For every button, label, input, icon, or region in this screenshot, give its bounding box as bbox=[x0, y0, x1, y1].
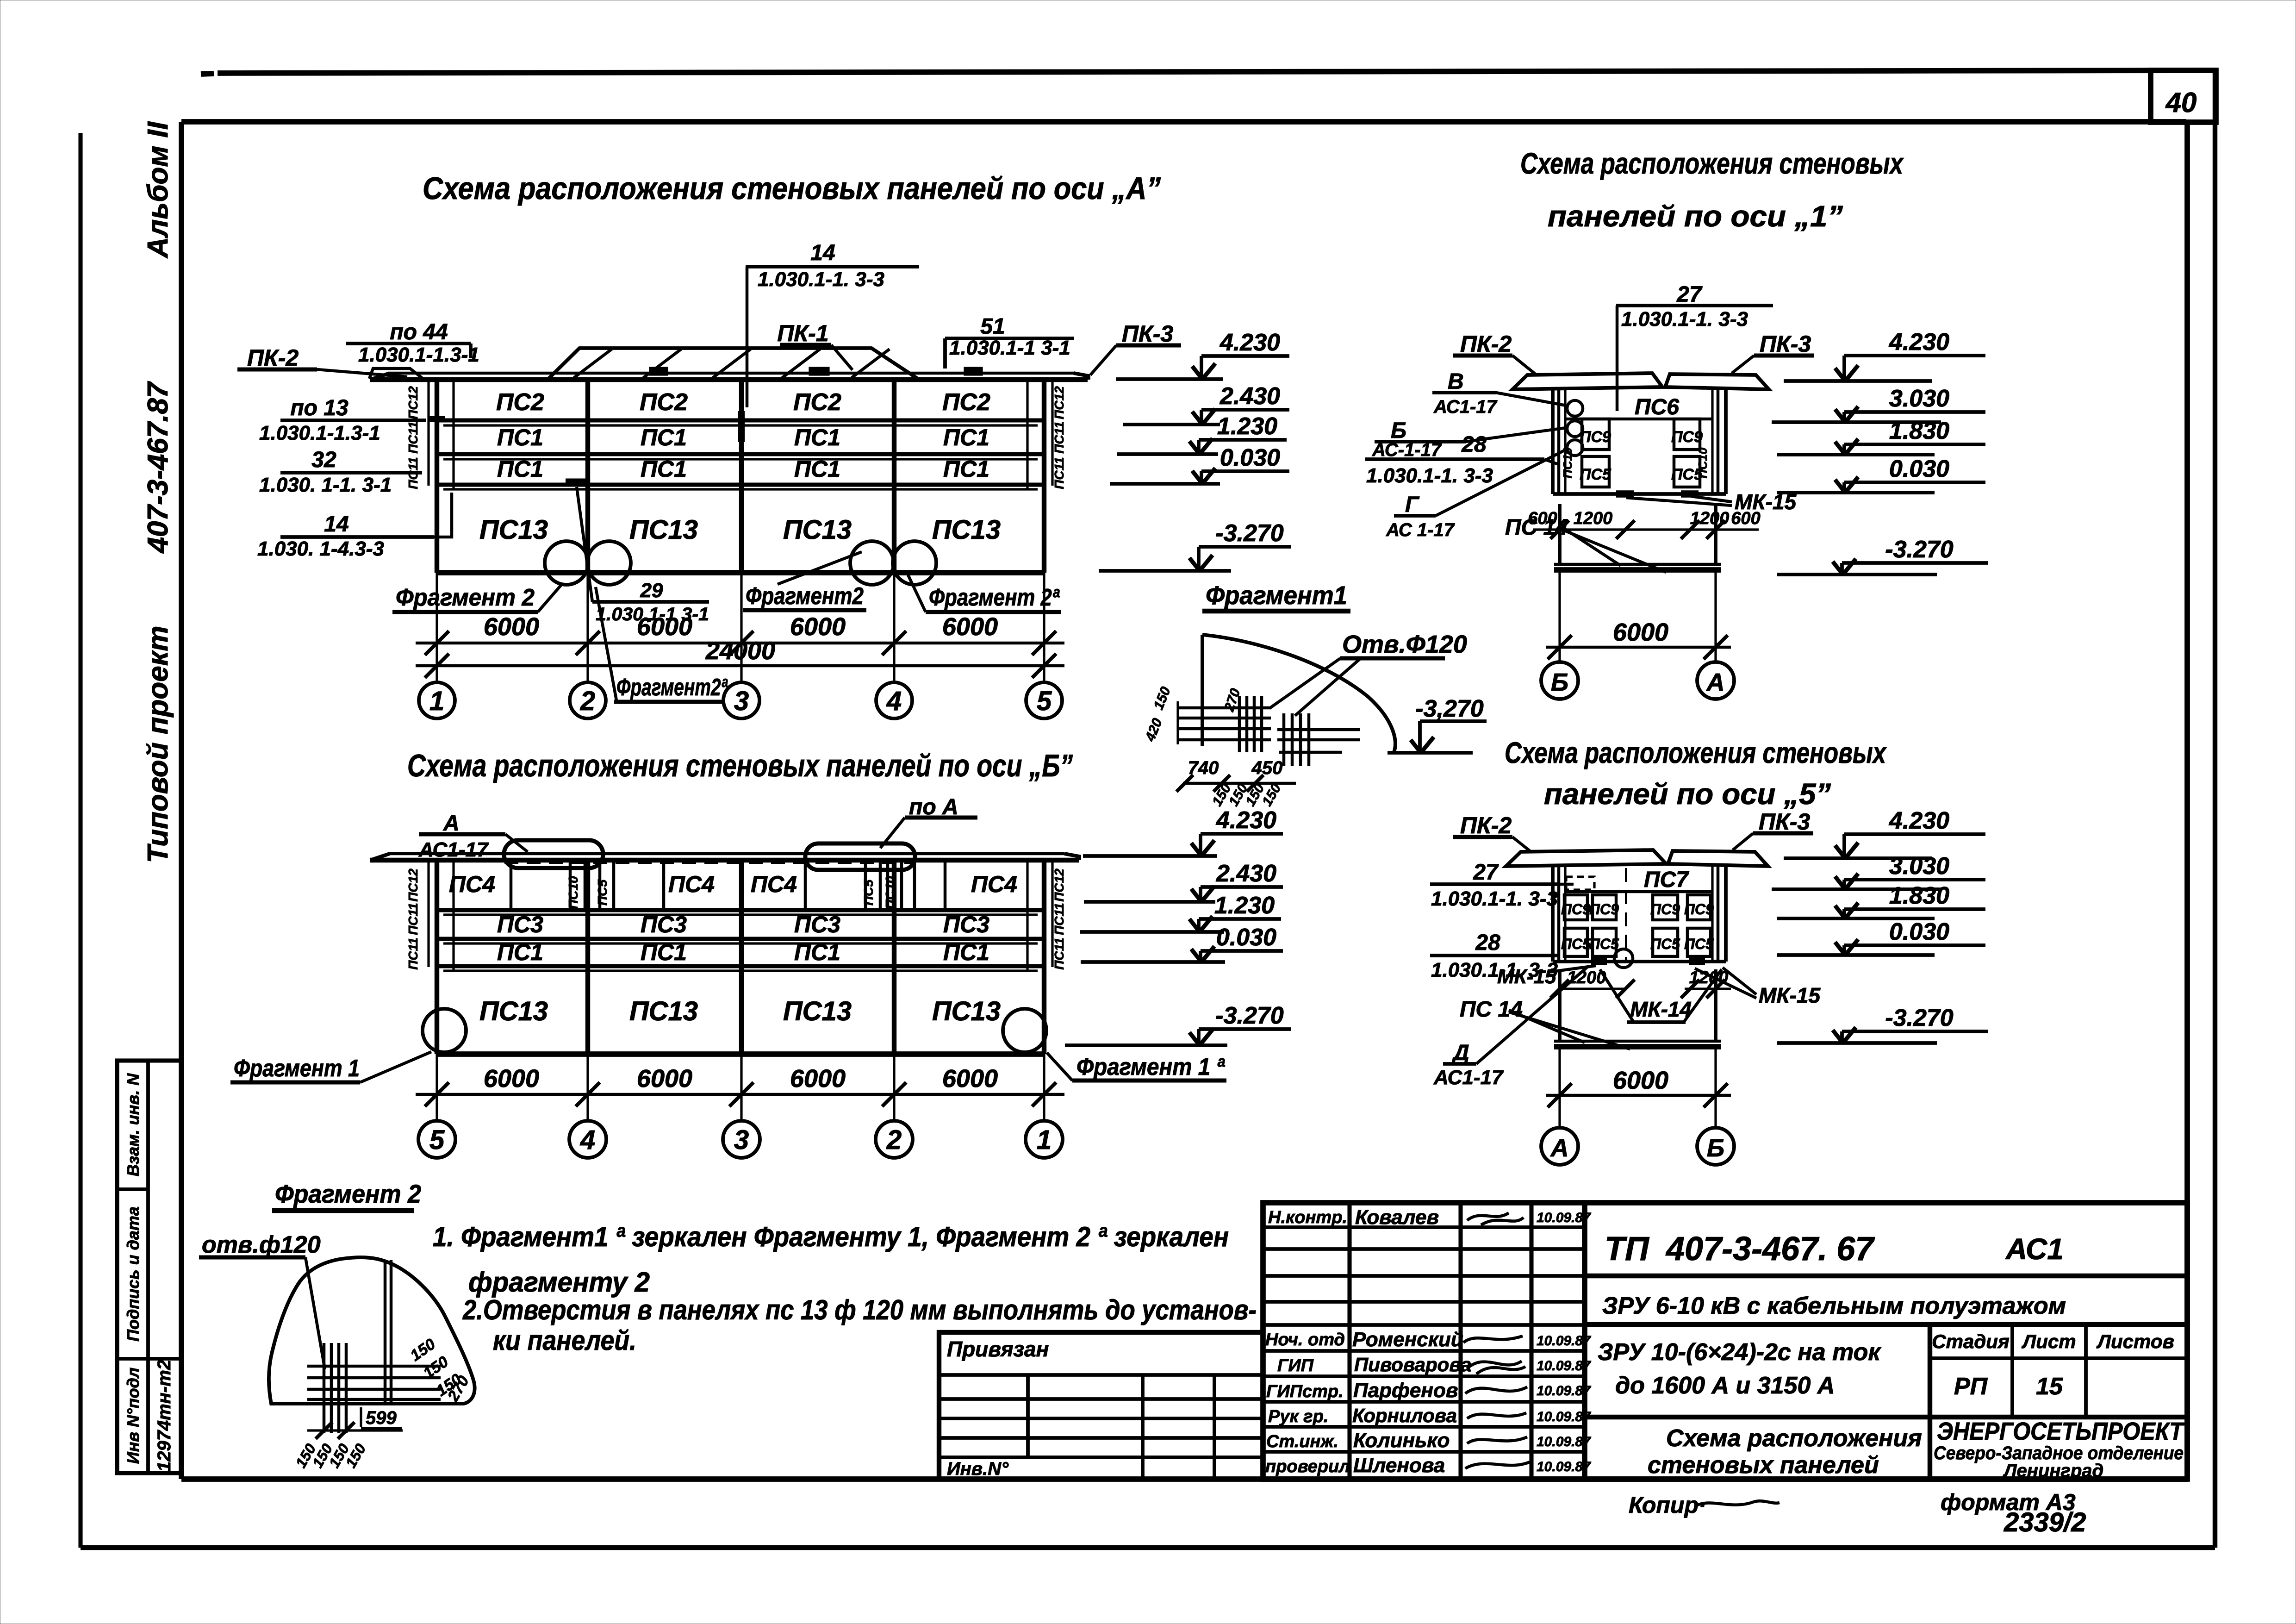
svg-text:0.030: 0.030 bbox=[1889, 918, 1949, 945]
skylight hatch diagonals bbox=[574, 349, 612, 378]
svg-text:АС-1-17: АС-1-17 bbox=[1372, 440, 1442, 460]
svg-text:3: 3 bbox=[734, 686, 749, 716]
svg-text:ПС1: ПС1 bbox=[794, 456, 840, 482]
svg-text:1.830: 1.830 bbox=[1889, 418, 1949, 444]
svg-text:6000: 6000 bbox=[1613, 618, 1668, 646]
svg-text:ГИП: ГИП bbox=[1277, 1356, 1314, 1375]
svg-text:6000: 6000 bbox=[790, 1065, 846, 1093]
roof slab lens right (PK-3) axis1 bbox=[1665, 374, 1769, 389]
axis verticals inside block bbox=[585, 380, 590, 573]
fragment 2 dim line bottom bbox=[307, 1429, 403, 1431]
privyazan table box bbox=[939, 1332, 1263, 1479]
svg-text:по 13: по 13 bbox=[290, 396, 348, 420]
svg-text:599: 599 bbox=[366, 1408, 397, 1428]
svg-text:Фрагмент 1: Фрагмент 1 bbox=[234, 1055, 360, 1082]
row line PS1 bottom bbox=[437, 482, 1044, 487]
svg-text:ЗРУ 10-(6×24)-2с на ток: ЗРУ 10-(6×24)-2с на ток bbox=[1598, 1339, 1881, 1366]
basement floor axis5 bbox=[1554, 1040, 1721, 1043]
svg-text:МК-15: МК-15 bbox=[1497, 965, 1556, 988]
sheet outer border right bbox=[2213, 70, 2217, 1548]
svg-text:ПС9: ПС9 bbox=[1684, 901, 1714, 918]
svg-text:Фрагмент2: Фрагмент2 bbox=[746, 583, 864, 610]
roof slab lens left (PK-2) axis1 bbox=[1512, 373, 1662, 389]
section marker circles B G V axis1 bbox=[1567, 400, 1583, 416]
svg-text:4.230: 4.230 bbox=[1216, 807, 1276, 834]
svg-text:Фрагмент 1 ª: Фрагмент 1 ª bbox=[1076, 1054, 1226, 1081]
svg-text:27: 27 bbox=[1676, 282, 1703, 307]
svg-text:10.09.87: 10.09.87 bbox=[1537, 1459, 1591, 1474]
svg-text:ПС1: ПС1 bbox=[641, 456, 687, 482]
fragment detail circles at axis 4 bbox=[850, 541, 894, 585]
svg-text:ПС13: ПС13 bbox=[932, 515, 1001, 545]
svg-text:ПК-2: ПК-2 bbox=[1460, 812, 1512, 838]
svg-text:2339/2: 2339/2 bbox=[2004, 1507, 2086, 1537]
svg-text:Колинько: Колинько bbox=[1353, 1429, 1450, 1452]
svg-text:407-3-467.87: 407-3-467.87 bbox=[142, 381, 174, 554]
svg-text:1.030.1-1.3-1: 1.030.1-1.3-1 bbox=[259, 422, 380, 444]
svg-text:1. Фрагмент1 ª зеркален Фрагм: 1. Фрагмент1 ª зеркален Фрагменту 1, Фра… bbox=[433, 1221, 1229, 1252]
svg-text:ПС1: ПС1 bbox=[794, 939, 840, 965]
svg-text:6000: 6000 bbox=[942, 1065, 998, 1093]
skylight panel PK-1 trapezoid bbox=[548, 348, 918, 379]
svg-text:1: 1 bbox=[1037, 1125, 1052, 1155]
drawing frame right bbox=[2184, 122, 2190, 1479]
svg-text:ПС1: ПС1 bbox=[794, 425, 840, 450]
svg-text:ПС11: ПС11 bbox=[1052, 903, 1066, 935]
svg-text:ПС5: ПС5 bbox=[1650, 936, 1680, 952]
svg-text:ки панелей.: ки панелей. bbox=[493, 1325, 636, 1356]
svg-text:Б: Б bbox=[1551, 668, 1568, 696]
axis circles A B axis5 bbox=[1541, 1128, 1578, 1165]
svg-text:А: А bbox=[1550, 1134, 1569, 1162]
svg-text:АС1-17: АС1-17 bbox=[1433, 1066, 1504, 1089]
svg-text:Д: Д bbox=[1451, 1041, 1469, 1065]
axis verticals elevation B bbox=[585, 860, 590, 1054]
svg-text:Фрагмент1: Фрагмент1 bbox=[1206, 581, 1347, 610]
center dashed line axis5 bbox=[1625, 868, 1627, 963]
svg-text:6000: 6000 bbox=[1613, 1067, 1668, 1094]
fragment circle right elevation B bbox=[1003, 1009, 1046, 1052]
walls axis1 bbox=[1551, 390, 1555, 494]
svg-text:Ковалев: Ковалев bbox=[1355, 1206, 1439, 1229]
dimension line 24000 bbox=[416, 664, 1064, 668]
svg-text:фрагменту 2: фрагменту 2 bbox=[468, 1267, 650, 1298]
svg-text:ПС10: ПС10 bbox=[1696, 447, 1710, 478]
svg-text:Фрагмент 2ª: Фрагмент 2ª bbox=[929, 584, 1060, 611]
svg-text:ПС13: ПС13 bbox=[479, 515, 548, 545]
svg-text:ПС6: ПС6 bbox=[1635, 395, 1679, 419]
svg-text:ПС11: ПС11 bbox=[1052, 457, 1066, 489]
svg-text:В: В bbox=[1448, 369, 1464, 394]
svg-text:ЗРУ 6-10 кВ с кабельным полу: ЗРУ 6-10 кВ с кабельным полуэтажом bbox=[1602, 1293, 2066, 1319]
svg-text:МК-14: МК-14 bbox=[1630, 997, 1692, 1021]
svg-text:стеновых панелей: стеновых панелей bbox=[1648, 1452, 1879, 1479]
drawing frame bottom bbox=[181, 1476, 2187, 1482]
svg-text:0.030: 0.030 bbox=[1216, 924, 1276, 951]
svg-text:Схема расположения стеновых па: Схема расположения стеновых панелей по о… bbox=[423, 171, 1161, 206]
PS4 row subdivision verticals bbox=[510, 861, 513, 910]
svg-text:Стадия: Стадия bbox=[1932, 1330, 2009, 1352]
svg-text:1.830: 1.830 bbox=[1889, 882, 1949, 909]
svg-text:28: 28 bbox=[1461, 432, 1487, 457]
svg-text:600: 600 bbox=[1731, 509, 1760, 528]
svg-text:ПС11: ПС11 bbox=[406, 937, 420, 969]
svg-text:ПС13: ПС13 bbox=[629, 515, 698, 545]
svg-text:Фрагмент2ª: Фрагмент2ª bbox=[616, 674, 728, 701]
roof slab lens left axis5 bbox=[1506, 850, 1666, 866]
roof left tongue PK-2 bbox=[369, 369, 423, 379]
svg-text:-3.270: -3.270 bbox=[1215, 1002, 1284, 1029]
row line PS1/PS1 bbox=[437, 452, 1044, 456]
svg-text:28: 28 bbox=[1475, 931, 1500, 955]
svg-text:2: 2 bbox=[580, 686, 595, 716]
title block outer bbox=[1263, 1203, 2187, 1479]
roof dashed line under slab bbox=[504, 862, 914, 864]
page number box 40 bbox=[2151, 70, 2216, 122]
svg-text:ПС4: ПС4 bbox=[971, 871, 1017, 897]
fragment 1 rebar cluster left horizontals bbox=[1179, 706, 1271, 710]
axis lines down axis5 bbox=[1558, 1047, 1561, 1128]
svg-text:-3.270: -3.270 bbox=[1885, 536, 1954, 563]
row line PS4 bottom bbox=[437, 908, 1044, 912]
svg-text:Схема расположения: Схема расположения bbox=[1666, 1425, 1922, 1452]
svg-text:Подпись и дата: Подпись и дата bbox=[124, 1206, 143, 1342]
svg-text:14: 14 bbox=[324, 512, 348, 537]
svg-text:6000: 6000 bbox=[484, 1065, 539, 1093]
svg-text:10.09.87: 10.09.87 bbox=[1537, 1383, 1591, 1399]
svg-text:ПС9: ПС9 bbox=[1650, 901, 1680, 918]
dimension line 6000 elevation B bbox=[416, 1093, 1064, 1096]
svg-text:панелей по оси „5”: панелей по оси „5” bbox=[1544, 777, 1831, 811]
dimension extension lines elevation A bbox=[436, 573, 438, 682]
dimension line 6000 row bbox=[416, 642, 1064, 645]
walls axis5 bbox=[1551, 867, 1555, 962]
svg-text:3: 3 bbox=[734, 1125, 749, 1155]
svg-text:3.030: 3.030 bbox=[1889, 853, 1949, 880]
base plates axis5 bbox=[1591, 958, 1607, 965]
svg-text:15: 15 bbox=[2036, 1373, 2063, 1400]
svg-text:ПС4: ПС4 bbox=[668, 871, 715, 897]
svg-text:ПС13: ПС13 bbox=[629, 996, 698, 1026]
svg-text:51: 51 bbox=[980, 314, 1005, 339]
svg-text:А: А bbox=[1706, 668, 1725, 696]
svg-text:ПК-2: ПК-2 bbox=[247, 345, 299, 371]
svg-text:4: 4 bbox=[886, 686, 902, 716]
svg-text:1.030.1-1. 3-3: 1.030.1-1. 3-3 bbox=[758, 268, 884, 291]
svg-text:Рук гр.: Рук гр. bbox=[1268, 1407, 1328, 1426]
block bottom PS13 elevation B bbox=[437, 1051, 1044, 1057]
svg-text:Инв N°подл: Инв N°подл bbox=[124, 1368, 143, 1464]
basement walls axis5 bbox=[1558, 969, 1562, 1041]
svg-text:ПС11: ПС11 bbox=[1052, 937, 1066, 969]
fragment 1 rebar cluster right verticals bbox=[1282, 713, 1286, 766]
svg-text:ПС9: ПС9 bbox=[1589, 901, 1619, 918]
svg-text:Взам. инв. N: Взам. инв. N bbox=[124, 1073, 143, 1177]
svg-text:Н.контр.: Н.контр. bbox=[1268, 1208, 1347, 1227]
svg-text:ПС9: ПС9 bbox=[1671, 428, 1703, 446]
fragment 2 rebar verticals bbox=[323, 1343, 326, 1433]
base joint circle axis5 bbox=[1614, 949, 1633, 968]
roof anchor mark 2 bbox=[965, 368, 982, 375]
svg-text:10.09.87: 10.09.87 bbox=[1537, 1358, 1591, 1374]
svg-text:Роменский: Роменский bbox=[1352, 1328, 1463, 1351]
svg-text:ПС13: ПС13 bbox=[783, 515, 852, 545]
svg-text:ПС10: ПС10 bbox=[566, 876, 580, 909]
svg-text:ПС 14: ПС 14 bbox=[1460, 997, 1523, 1022]
svg-text:4.230: 4.230 bbox=[1889, 329, 1949, 356]
drawing frame left bbox=[179, 122, 184, 1479]
PS6 row line axis1 bbox=[1565, 418, 1712, 421]
svg-text:6000: 6000 bbox=[942, 613, 998, 641]
row line PS2/PS1 bbox=[437, 418, 1044, 422]
svg-text:ГИПстр.: ГИПстр. bbox=[1266, 1382, 1344, 1401]
svg-text:ПС12: ПС12 bbox=[1052, 868, 1066, 902]
svg-text:ПС2: ПС2 bbox=[496, 389, 544, 416]
svg-text:АС1: АС1 bbox=[2005, 1232, 2064, 1266]
svg-text:1200: 1200 bbox=[1574, 509, 1613, 528]
svg-text:ПС5: ПС5 bbox=[595, 880, 610, 906]
svg-text:1: 1 bbox=[429, 686, 444, 716]
axis circles elevation B bbox=[418, 1121, 455, 1158]
fragment 1 rebar cluster right horizontals bbox=[1277, 728, 1360, 731]
svg-text:4.230: 4.230 bbox=[1889, 807, 1949, 834]
svg-text:Фрагмент 2: Фрагмент 2 bbox=[396, 584, 535, 611]
svg-text:ПС9: ПС9 bbox=[1561, 901, 1591, 918]
svg-text:-3.270: -3.270 bbox=[1215, 520, 1284, 547]
joint tick left edge bbox=[428, 416, 445, 422]
svg-text:Привязан: Привязан bbox=[947, 1337, 1049, 1361]
svg-text:ПС13: ПС13 bbox=[783, 996, 852, 1026]
svg-text:ПК-1: ПК-1 bbox=[777, 320, 828, 346]
fragment 1 panel outline bbox=[1201, 635, 1204, 746]
stamp box column bbox=[117, 1061, 181, 1473]
svg-text:600: 600 bbox=[1528, 509, 1557, 528]
svg-text:14: 14 bbox=[810, 241, 835, 265]
svg-text:ПС12: ПС12 bbox=[406, 386, 420, 419]
wall panel block elevation B bbox=[427, 861, 429, 967]
svg-text:до 1600 А и 3150 А: до 1600 А и 3150 А bbox=[1615, 1372, 1835, 1399]
svg-text:Отв.Ф120: Отв.Ф120 bbox=[1342, 631, 1467, 658]
svg-text:ПС2: ПС2 bbox=[640, 389, 688, 416]
vent hood oval 1 bbox=[504, 840, 603, 868]
svg-text:Лист: Лист bbox=[2021, 1330, 2076, 1352]
svg-text:ПС5: ПС5 bbox=[1589, 936, 1619, 952]
privyazan sub-table lines bbox=[939, 1373, 1263, 1377]
fragment 2 panel blob outline bbox=[269, 1257, 475, 1404]
block bottom line PS13 bbox=[437, 570, 1044, 575]
svg-text:ПС1: ПС1 bbox=[497, 456, 543, 482]
svg-text:ПС4: ПС4 bbox=[751, 871, 797, 897]
svg-text:ПС2: ПС2 bbox=[942, 389, 990, 416]
vent hood oval 2 bbox=[805, 843, 915, 870]
basement floor axis1 bbox=[1554, 563, 1721, 566]
svg-text:Г: Г bbox=[1405, 493, 1420, 517]
svg-text:Фрагмент 2: Фрагмент 2 bbox=[275, 1179, 421, 1208]
fragment 2 rebar horizontals bbox=[307, 1365, 441, 1368]
svg-text:1.030.1-1.3-1: 1.030.1-1.3-1 bbox=[358, 344, 479, 366]
fragment 2 inner double vertical bbox=[384, 1260, 387, 1404]
PS9 boxes axis1 bbox=[1582, 419, 1609, 450]
stadiya list listov header bbox=[1930, 1356, 2187, 1360]
roof slab line elevation B bbox=[389, 852, 1064, 856]
joint tick axis2 PS1 row bbox=[566, 479, 587, 485]
svg-text:450: 450 bbox=[1251, 758, 1283, 778]
svg-text:-3.270: -3.270 bbox=[1885, 1005, 1954, 1031]
row line PS1 bottom elevation B bbox=[437, 964, 1044, 968]
svg-text:МК-15: МК-15 bbox=[1759, 983, 1821, 1007]
title block signature table columns bbox=[1347, 1203, 1351, 1479]
roof slab line elevation A bbox=[389, 372, 1074, 375]
row line PS3 bottom bbox=[437, 937, 1044, 941]
svg-text:ПС7: ПС7 bbox=[1644, 868, 1689, 892]
svg-text:Ленинград: Ленинград bbox=[2003, 1461, 2103, 1481]
svg-text:1.030.1-1. 3-3: 1.030.1-1. 3-3 bbox=[1366, 464, 1493, 487]
svg-text:Б: Б bbox=[1707, 1134, 1724, 1162]
svg-text:ПС5: ПС5 bbox=[861, 880, 876, 906]
svg-text:10.09.87: 10.09.87 bbox=[1537, 1409, 1591, 1424]
svg-text:1.230: 1.230 bbox=[1214, 892, 1275, 919]
svg-text:Альбом II: Альбом II bbox=[142, 121, 174, 259]
svg-text:ПС13: ПС13 bbox=[479, 996, 548, 1026]
svg-text:проверил: проверил bbox=[1265, 1457, 1350, 1476]
svg-text:ПС11: ПС11 bbox=[406, 421, 420, 453]
svg-text:407-3-467. 67: 407-3-467. 67 bbox=[1665, 1230, 1875, 1268]
svg-text:А: А bbox=[443, 811, 460, 836]
svg-text:ПС10: ПС10 bbox=[883, 876, 897, 909]
svg-text:ПС9: ПС9 bbox=[1580, 428, 1611, 446]
axis lines down to circles axis1 bbox=[1558, 570, 1561, 661]
svg-text:Корнилова: Корнилова bbox=[1352, 1405, 1457, 1426]
svg-text:29: 29 bbox=[640, 579, 663, 602]
svg-text:ПС5: ПС5 bbox=[1580, 466, 1612, 483]
svg-text:6000: 6000 bbox=[637, 613, 692, 641]
svg-text:ПС3: ПС3 bbox=[641, 912, 687, 937]
svg-text:ПС5: ПС5 bbox=[1684, 936, 1714, 952]
svg-text:ПС2: ПС2 bbox=[793, 389, 841, 416]
sheet outer border left bbox=[78, 133, 82, 1548]
svg-text:РП: РП bbox=[1954, 1373, 1988, 1400]
svg-text:-3,270: -3,270 bbox=[1415, 695, 1484, 722]
svg-text:3.030: 3.030 bbox=[1889, 385, 1949, 412]
drawing frame top bbox=[181, 119, 2186, 125]
svg-text:Копир·: Копир· bbox=[1629, 1492, 1706, 1518]
svg-text:Ноч. отд: Ноч. отд bbox=[1265, 1330, 1345, 1349]
svg-text:1.030.1-1. 3-3: 1.030.1-1. 3-3 bbox=[1621, 308, 1748, 331]
svg-text:ПК-3: ПК-3 bbox=[1122, 321, 1173, 347]
fragment detail circles at axis 2 bbox=[545, 541, 588, 585]
basement walls axis1 bbox=[1558, 504, 1562, 564]
svg-text:ЭНЕРГОСЕТЬПРОЕКТ: ЭНЕРГОСЕТЬПРОЕКТ bbox=[1937, 1418, 2185, 1445]
svg-text:ПС1: ПС1 bbox=[641, 939, 687, 965]
fragment 2 label 599 bbox=[360, 1407, 362, 1427]
PS7 row line axis5 bbox=[1565, 890, 1712, 893]
svg-text:10.09.87: 10.09.87 bbox=[1537, 1434, 1591, 1449]
svg-text:2.430: 2.430 bbox=[1220, 383, 1280, 410]
svg-text:6000: 6000 bbox=[637, 1065, 692, 1093]
svg-text:2.430: 2.430 bbox=[1216, 860, 1276, 887]
svg-text:ПС1: ПС1 bbox=[943, 456, 989, 482]
axis circles elevation A bbox=[419, 682, 455, 718]
svg-text:1.030. 1-1. 3-1: 1.030. 1-1. 3-1 bbox=[259, 474, 392, 496]
svg-text:ПС12: ПС12 bbox=[406, 868, 420, 902]
svg-text:0.030: 0.030 bbox=[1220, 444, 1280, 471]
svg-text:ПК-2: ПК-2 bbox=[1460, 331, 1512, 357]
svg-text:ПС1: ПС1 bbox=[497, 939, 543, 965]
svg-text:2: 2 bbox=[886, 1125, 902, 1155]
svg-text:40: 40 bbox=[2165, 87, 2197, 118]
svg-text:5: 5 bbox=[1037, 686, 1052, 716]
svg-text:6000: 6000 bbox=[790, 613, 846, 641]
svg-text:отв.ф120: отв.ф120 bbox=[202, 1231, 321, 1258]
sheet outer border bottom bbox=[81, 1545, 2215, 1550]
svg-text:24000: 24000 bbox=[705, 637, 775, 665]
svg-text:по 44: по 44 bbox=[390, 320, 448, 344]
svg-text:10.09.87: 10.09.87 bbox=[1537, 1210, 1591, 1225]
svg-text:4: 4 bbox=[580, 1125, 595, 1155]
svg-text:АС1-17: АС1-17 bbox=[1433, 397, 1498, 417]
svg-text:Схема расположения стеновых: Схема расположения стеновых bbox=[1505, 736, 1887, 769]
joint tick axis3 PS2 row bbox=[738, 411, 745, 442]
svg-text:Парфенов: Парфенов bbox=[1353, 1379, 1458, 1402]
PS5 boxes axis5 bbox=[1564, 928, 1587, 956]
svg-text:27: 27 bbox=[1473, 860, 1499, 885]
svg-text:ПС11: ПС11 bbox=[406, 903, 420, 935]
fragment circle left elevation B bbox=[423, 1009, 466, 1052]
roof anchor mark 3 bbox=[810, 368, 828, 375]
svg-text:ПС13: ПС13 bbox=[932, 996, 1001, 1026]
svg-text:Пивоварова: Пивоварова bbox=[1354, 1354, 1472, 1375]
svg-text:Шленова: Шленова bbox=[1353, 1454, 1445, 1477]
svg-text:Инв.N°: Инв.N° bbox=[947, 1459, 1009, 1479]
svg-text:ПК-3: ПК-3 bbox=[1760, 331, 1811, 357]
svg-text:ПС3: ПС3 bbox=[943, 912, 989, 937]
title block project name row bbox=[1585, 1322, 2187, 1327]
svg-text:1.030.1-1. 3-3: 1.030.1-1. 3-3 bbox=[1431, 887, 1558, 910]
axis circles B A axis1 bbox=[1541, 662, 1578, 699]
svg-text:АС 1-17: АС 1-17 bbox=[1386, 520, 1455, 540]
svg-text:ТП: ТП bbox=[1605, 1230, 1650, 1268]
svg-text:ПС12: ПС12 bbox=[1052, 386, 1066, 419]
wall panel block elevation A bbox=[427, 381, 429, 486]
svg-text:Схема расположения стеновых па: Схема расположения стеновых панелей по о… bbox=[407, 748, 1073, 783]
svg-text:1.030. 1-4.3-3: 1.030. 1-4.3-3 bbox=[257, 537, 384, 560]
svg-text:1200: 1200 bbox=[1567, 968, 1606, 987]
svg-text:ПС1: ПС1 bbox=[943, 425, 989, 450]
title block signature rows bbox=[1263, 1225, 1585, 1229]
PS5 boxes axis1 bbox=[1582, 456, 1609, 487]
svg-text:Типовой проект: Типовой проект bbox=[142, 626, 174, 863]
svg-text:Ст.инж.: Ст.инж. bbox=[1266, 1432, 1338, 1451]
svg-text:Схема расположения стеновых: Схема расположения стеновых bbox=[1520, 147, 1904, 180]
svg-text:1.030.1-1 3-1: 1.030.1-1 3-1 bbox=[949, 337, 1070, 359]
svg-text:ПС1: ПС1 bbox=[497, 425, 543, 450]
svg-text:панелей по оси „1”: панелей по оси „1” bbox=[1548, 200, 1843, 233]
title block TP row bbox=[1585, 1274, 2187, 1278]
svg-text:ПС4: ПС4 bbox=[449, 871, 495, 897]
svg-text:ПС1: ПС1 bbox=[943, 939, 989, 965]
fragment 1 rebar cluster left verticals bbox=[1238, 696, 1241, 752]
title block row C divider bbox=[1585, 1415, 2187, 1419]
svg-text:4.230: 4.230 bbox=[1220, 329, 1280, 356]
roof anchor mark 1 bbox=[650, 368, 667, 375]
svg-text:5: 5 bbox=[429, 1125, 445, 1155]
svg-text:ПС1: ПС1 bbox=[641, 425, 687, 450]
svg-text:32: 32 bbox=[311, 448, 336, 472]
PS9 boxes axis5 bbox=[1564, 895, 1587, 920]
svg-text:ПС3: ПС3 bbox=[497, 912, 543, 937]
svg-text:ПК-3: ПК-3 bbox=[1759, 809, 1810, 835]
sheet outer border top line bbox=[218, 70, 2215, 73]
